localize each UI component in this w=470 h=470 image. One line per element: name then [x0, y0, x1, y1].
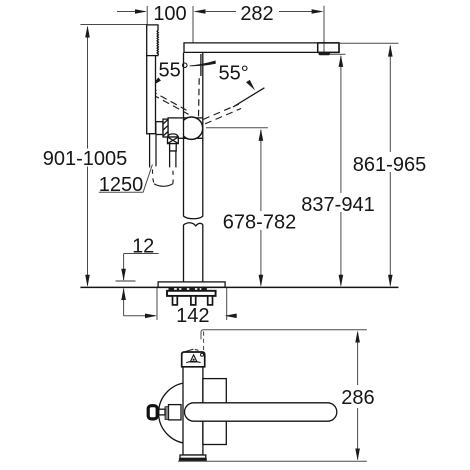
hose dashed loop — [152, 170, 154, 185]
diverter knob — [168, 137, 179, 144]
dimension 678-782 — [206, 128, 268, 287]
stem — [159, 409, 165, 415]
svg-text:861-965: 861-965 — [353, 154, 426, 176]
svg-text:55°: 55° — [219, 63, 249, 85]
diverter tube — [170, 151, 176, 167]
aerator — [319, 52, 330, 55]
55 deg left dashed handle line — [146, 85, 188, 114]
column (front view) — [184, 53, 203, 282]
dimension 837-941 — [330, 54, 346, 286]
body column (side) — [183, 367, 203, 455]
diverter knob dome — [168, 134, 178, 137]
286 bottom extension line — [178, 460, 367, 462]
base plate — [158, 282, 225, 287]
holder bracket — [168, 118, 183, 138]
shower head — [147, 25, 159, 56]
svg-text:142: 142 — [176, 305, 209, 327]
holder connector — [156, 122, 163, 135]
svg-text:837-941: 837-941 — [301, 194, 374, 216]
hatch strip — [165, 407, 169, 420]
286 top extension line with hook — [201, 330, 367, 351]
dimension 901-1005 — [80, 25, 146, 287]
handle neutral reference line — [200, 54, 202, 76]
svg-text:100: 100 — [153, 3, 186, 25]
mounting tab marks — [169, 288, 207, 290]
spout (side view) — [185, 403, 337, 421]
mounting bar — [167, 291, 216, 296]
handle lever (side) — [169, 405, 182, 420]
svg-text:282: 282 — [240, 3, 273, 25]
right rectangle (wall bracket) — [203, 379, 226, 445]
dimension 12 — [116, 254, 159, 316]
svg-text:55°: 55° — [159, 60, 189, 82]
base flare — [179, 455, 207, 461]
left 55 arc bow — [190, 61, 216, 67]
55 deg left arrowhead — [151, 77, 161, 86]
valve body horizontals — [184, 117, 203, 119]
escutcheon circle — [159, 383, 220, 444]
mounting legs — [173, 296, 213, 305]
svg-text:678-782: 678-782 — [223, 212, 296, 234]
svg-text:12: 12 — [132, 235, 154, 257]
shower handle — [147, 56, 156, 134]
dimension 142 — [124, 288, 237, 320]
top cap — [182, 349, 205, 367]
top dimension line 282 — [194, 6, 325, 52]
shower hose tube — [150, 134, 156, 168]
ball joint — [180, 117, 202, 139]
floor line — [80, 286, 398, 288]
holder hatched strip — [163, 119, 168, 137]
spout (front view) — [184, 43, 339, 53]
55 deg right arrowhead — [246, 80, 255, 90]
dimension 861-965 — [339, 43, 399, 287]
svg-text:286: 286 — [341, 387, 374, 409]
55 deg right dashed handle line — [203, 88, 264, 124]
svg-text:901-1005: 901-1005 — [43, 148, 128, 170]
handle dashed vertical — [198, 78, 201, 117]
dimension 286 — [355, 331, 360, 461]
diverter stem — [170, 144, 177, 151]
knob — [148, 406, 157, 419]
top dimension line 100 — [117, 6, 193, 43]
